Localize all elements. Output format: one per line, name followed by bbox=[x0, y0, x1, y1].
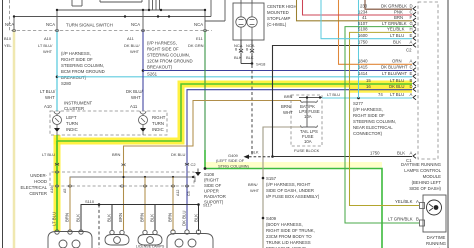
svg-text:LT GRN/BLK: LT GRN/BLK bbox=[382, 21, 407, 26]
svg-text:BLK: BLK bbox=[246, 55, 254, 60]
svg-text:STEERING COLUMN,: STEERING COLUMN, bbox=[147, 53, 190, 58]
svg-text:A: A bbox=[416, 199, 419, 204]
wire DK BLU/WHT horizontal to connector pin C bbox=[143, 70, 412, 72]
svg-text:C5: C5 bbox=[187, 191, 191, 196]
svg-text:BRN: BRN bbox=[394, 15, 403, 20]
svg-text:BLK: BLK bbox=[397, 151, 405, 156]
svg-text:(I/P HARNESS,: (I/P HARNESS, bbox=[147, 41, 177, 46]
svg-text:TURN SIGNAL SWITCH: TURN SIGNAL SWITCH bbox=[66, 23, 113, 28]
svg-text:DK BLU/WHT: DK BLU/WHT bbox=[381, 65, 408, 70]
C-HMSL ground leads BLK bbox=[239, 40, 254, 64]
svg-text:BRN: BRN bbox=[65, 213, 70, 222]
svg-text:16: 16 bbox=[366, 84, 371, 89]
svg-text:D: D bbox=[410, 84, 413, 89]
svg-text:RIGHT SIDE OF: RIGHT SIDE OF bbox=[147, 47, 179, 52]
fuse block dashed box bbox=[291, 95, 322, 153]
junction dot ground bus bbox=[271, 155, 274, 158]
svg-text:(I/P HARNESS,: (I/P HARNESS, bbox=[61, 51, 91, 56]
turn signal switch dashed box bbox=[10, 0, 213, 31]
svg-text:(I/P HARNESS,: (I/P HARNESS, bbox=[353, 107, 383, 112]
wire LT BLU 74 from fuse block to connector pin A bbox=[322, 97, 412, 99]
svg-text:5108: 5108 bbox=[358, 27, 368, 32]
svg-text:LT BLU: LT BLU bbox=[42, 152, 55, 157]
svg-text:ORN: ORN bbox=[392, 59, 402, 64]
svg-text:C2: C2 bbox=[191, 162, 197, 167]
svg-text:1234: 1234 bbox=[358, 9, 368, 14]
DRL ambient light sensor box bbox=[420, 195, 447, 232]
svg-text:YEL: YEL bbox=[4, 43, 12, 48]
splice S280 dot bbox=[56, 76, 59, 79]
svg-text:LT BLU: LT BLU bbox=[327, 92, 340, 97]
svg-text:HOOD: HOOD bbox=[34, 179, 47, 184]
splice S261 text block bbox=[147, 41, 193, 77]
svg-text:WHT: WHT bbox=[131, 95, 141, 100]
splice S280 text block bbox=[61, 51, 105, 86]
pin labels below box bbox=[50, 187, 191, 196]
fuse block internal bus bbox=[299, 98, 322, 128]
svg-text:LICENSE LAMPS: LICENSE LAMPS bbox=[136, 245, 165, 248]
pale highlight on DK GRN run bbox=[205, 162, 382, 168]
svg-text:10A: 10A bbox=[304, 114, 312, 119]
svg-text:BRN: BRN bbox=[140, 213, 145, 222]
connector chevrons C1 bbox=[413, 62, 416, 159]
svg-text:CONNECTOR): CONNECTOR) bbox=[353, 131, 383, 136]
svg-text:12CM FROM GROUND: 12CM FROM GROUND bbox=[147, 59, 193, 64]
hidden ground continuation dashed bbox=[98, 205, 100, 248]
fuse TAIL LPS 10A bbox=[301, 125, 318, 127]
svg-text:WHT: WHT bbox=[250, 188, 260, 193]
wire DK GRN/BLK 233 from top to connector bbox=[365, 0, 412, 9]
wire PNK from top to connector bbox=[303, 0, 413, 15]
wire YEL vertical bbox=[13, 31, 16, 248]
svg-text:PNK: PNK bbox=[394, 9, 403, 14]
svg-text:CENTER: CENTER bbox=[29, 191, 47, 196]
splice S261 dot bbox=[142, 69, 145, 72]
svg-text:DK GRN: DK GRN bbox=[188, 43, 204, 48]
svg-text:BRN/: BRN/ bbox=[248, 182, 258, 187]
svg-text:A10: A10 bbox=[44, 36, 52, 41]
svg-text:NCA: NCA bbox=[46, 22, 55, 27]
svg-text:TURN: TURN bbox=[152, 121, 164, 126]
wire DK BLU/WHT vertical from switch to cluster bbox=[142, 31, 144, 112]
switch pin labels NCA bbox=[5, 22, 203, 27]
C-HMSL lamp box bbox=[233, 3, 264, 40]
wire BRN rear lamp from box bbox=[172, 177, 174, 231]
svg-text:(LEFT SIDE OF: (LEFT SIDE OF bbox=[216, 158, 245, 163]
svg-text:BREAKOUT): BREAKOUT) bbox=[61, 75, 87, 80]
svg-text:TRUNK LID HARNESS: TRUNK LID HARNESS bbox=[266, 240, 311, 245]
svg-text:LEFT: LEFT bbox=[66, 115, 77, 120]
svg-text:SUPORT): SUPORT) bbox=[204, 200, 224, 205]
svg-text:LT BLU/: LT BLU/ bbox=[38, 43, 53, 48]
svg-text:CENTER HIGH: CENTER HIGH bbox=[267, 4, 297, 9]
svg-text:RIGHT SIDE OF TRUNK,: RIGHT SIDE OF TRUNK, bbox=[266, 228, 315, 233]
svg-text:BLK: BLK bbox=[150, 214, 155, 222]
svg-text:BLK: BLK bbox=[234, 55, 242, 60]
svg-text:NCA: NCA bbox=[5, 22, 14, 27]
svg-text:CLUSTER: CLUSTER bbox=[64, 106, 84, 111]
splice S277 text block bbox=[353, 101, 396, 136]
svg-text:S277: S277 bbox=[353, 101, 364, 106]
svg-text:74: 74 bbox=[378, 92, 383, 97]
junction dots inside switch bbox=[13, 9, 206, 18]
wire LT BLU vertical from top through rows to S277 bbox=[358, 0, 360, 98]
ground G409 bbox=[216, 150, 273, 169]
svg-text:1750: 1750 bbox=[370, 151, 380, 156]
svg-text:S418: S418 bbox=[256, 62, 266, 67]
svg-text:DK GRN/BLK: DK GRN/BLK bbox=[381, 4, 407, 9]
svg-text:MODULE: MODULE bbox=[423, 174, 442, 179]
svg-text:DK BLU: DK BLU bbox=[171, 152, 186, 157]
inline connector tick on DK BLU with C2 label bbox=[185, 163, 189, 166]
splice S418 bbox=[251, 62, 254, 65]
svg-text:E: E bbox=[410, 71, 413, 76]
svg-text:1600: 1600 bbox=[358, 33, 368, 38]
svg-text:DAYTIME: DAYTIME bbox=[427, 235, 446, 240]
svg-text:BLK: BLK bbox=[251, 150, 259, 155]
wire BLK from C-HMSL ground path: vertical and row to pin A bbox=[273, 46, 413, 157]
svg-text:A: A bbox=[410, 40, 413, 45]
pin B10 label and YEL wire bbox=[4, 36, 12, 48]
svg-text:F: F bbox=[410, 15, 413, 20]
svg-text:WHT: WHT bbox=[45, 95, 55, 100]
svg-text:LT GRN/BLK: LT GRN/BLK bbox=[388, 217, 413, 222]
svg-text:YEL/BLK: YEL/BLK bbox=[395, 199, 413, 204]
svg-text:BRN/: BRN/ bbox=[281, 104, 292, 109]
svg-text:233: 233 bbox=[360, 4, 368, 9]
svg-text:E11: E11 bbox=[196, 36, 204, 41]
svg-text:1840: 1840 bbox=[358, 59, 368, 64]
left turn indicator ground bbox=[54, 128, 60, 132]
svg-text:LT BLU: LT BLU bbox=[390, 33, 404, 38]
svg-text:INSTRUMENT: INSTRUMENT bbox=[64, 101, 93, 106]
pin A10 label, LT BLU/WHT bbox=[38, 36, 53, 54]
svg-text:D: D bbox=[410, 4, 413, 9]
svg-text:A: A bbox=[410, 92, 413, 97]
svg-text:B10: B10 bbox=[4, 36, 12, 41]
svg-text:WHT: WHT bbox=[283, 110, 293, 115]
hidden BLK ground run (dashed) from S418 bbox=[251, 65, 253, 157]
svg-text:FUSE BLOCK: FUSE BLOCK bbox=[294, 148, 320, 153]
C2 row labels bbox=[358, 4, 414, 53]
underhood center internal bus bbox=[70, 177, 195, 182]
wire BRN 41 from top to connector bbox=[297, 0, 413, 21]
DRL module connector dashed box bbox=[418, 2, 438, 159]
svg-text:A12: A12 bbox=[176, 190, 180, 196]
right frame border bbox=[447, 0, 449, 248]
fuse BAT/RAP LPS 10A bbox=[301, 100, 318, 102]
instrument cluster dashed box bbox=[50, 101, 167, 136]
connector chevrons C2 bbox=[413, 6, 416, 47]
DRL control module label bbox=[401, 162, 442, 191]
svg-text:BLK: BLK bbox=[76, 214, 81, 222]
splice S110 ground bus for front lamps bbox=[81, 199, 199, 231]
svg-text:1415: 1415 bbox=[358, 65, 368, 70]
svg-text:23CM FROM BODY TO: 23CM FROM BODY TO bbox=[266, 234, 312, 239]
wire BRN lamp1 from bus bbox=[69, 177, 71, 231]
svg-text:BREAKOUT): BREAKOUT) bbox=[147, 65, 173, 70]
svg-text:NCA: NCA bbox=[194, 22, 203, 27]
wire BRN/WHT from fuse down left side bbox=[263, 127, 301, 248]
pin A11 label DK BLU/WHT bbox=[124, 36, 140, 54]
sensor wire labels bbox=[388, 199, 419, 222]
svg-text:BLK: BLK bbox=[194, 214, 199, 222]
turn signal switch internal contacts bbox=[14, 0, 225, 31]
svg-text:1750: 1750 bbox=[358, 40, 368, 45]
svg-text:RIGHT SIDE OF: RIGHT SIDE OF bbox=[61, 57, 93, 62]
right turn indicator ground bbox=[140, 128, 146, 132]
svg-text:S108: S108 bbox=[204, 172, 215, 177]
svg-text:MOUNTED: MOUNTED bbox=[267, 10, 289, 15]
svg-text:C2: C2 bbox=[406, 48, 412, 53]
svg-text:RUNNING: RUNNING bbox=[426, 241, 447, 246]
svg-text:A16: A16 bbox=[50, 187, 54, 193]
svg-text:NCA: NCA bbox=[131, 22, 140, 27]
svg-text:A10: A10 bbox=[44, 104, 52, 109]
svg-text:DK BLU: DK BLU bbox=[389, 84, 405, 89]
front park/turn lamp assembly bbox=[48, 230, 92, 248]
svg-text:S261: S261 bbox=[147, 72, 158, 77]
license lamp 1 bbox=[105, 230, 129, 245]
svg-text:C: C bbox=[410, 65, 413, 70]
C-HMSL feed wires from top bbox=[240, 0, 242, 3]
svg-text:S280: S280 bbox=[61, 81, 72, 86]
svg-text:A: A bbox=[410, 59, 413, 64]
C-HMSL label bbox=[267, 4, 297, 27]
svg-text:YEL/BLK: YEL/BLK bbox=[387, 27, 405, 32]
splice S409 on BRN/WHT bbox=[262, 216, 315, 248]
svg-text:E: E bbox=[410, 33, 413, 38]
wire BRN license2 from box bbox=[144, 177, 146, 230]
svg-text:S110: S110 bbox=[85, 199, 95, 204]
wire LT GRN/BLK from connector down to DRL sensor pin B bbox=[345, 27, 419, 223]
svg-text:A5: A5 bbox=[63, 189, 67, 193]
svg-text:5107: 5107 bbox=[358, 21, 368, 26]
underhood electrical center dashed box bbox=[20, 172, 194, 196]
svg-text:S157: S157 bbox=[266, 176, 277, 181]
svg-text:STOPLAMP: STOPLAMP bbox=[267, 16, 290, 21]
C-HMSL bulb 1 bbox=[236, 3, 246, 40]
svg-text:I/P FUSE BOX ASSEMBLY): I/P FUSE BOX ASSEMBLY) bbox=[266, 194, 320, 199]
svg-text:(C-HMSL): (C-HMSL) bbox=[267, 22, 287, 27]
svg-text:LT BLU/WHT: LT BLU/WHT bbox=[382, 71, 408, 76]
svg-text:WHT: WHT bbox=[130, 49, 140, 54]
svg-text:STRG COLUMN): STRG COLUMN) bbox=[218, 164, 250, 169]
svg-text:BRN: BRN bbox=[112, 152, 121, 157]
svg-text:BLK: BLK bbox=[107, 214, 112, 222]
splice S277 dot bbox=[357, 97, 360, 100]
svg-text:SIDE OF DASH): SIDE OF DASH) bbox=[409, 186, 441, 191]
wire LT BLU 1600 from top corner to connector bbox=[321, 0, 412, 39]
svg-text:BRN: BRN bbox=[118, 213, 123, 222]
right turn indicator bulb bbox=[139, 111, 148, 128]
svg-text:15: 15 bbox=[366, 78, 371, 83]
connector ticks on turn signal switch bottom edge bbox=[12, 29, 207, 31]
wire DK BLU from connector D down to rear lamp bbox=[187, 90, 412, 230]
svg-text:UNDER-: UNDER- bbox=[30, 173, 47, 178]
svg-text:DAYTIME RUNNING: DAYTIME RUNNING bbox=[401, 162, 442, 167]
sensor caption bbox=[422, 235, 450, 248]
wire YEL/BLK from connector down to DRL sensor pin A bbox=[350, 32, 420, 205]
svg-text:B: B bbox=[410, 78, 413, 83]
wire DK GRN highlighted lower run bbox=[205, 150, 382, 248]
svg-text:STEERING COLUMN,: STEERING COLUMN, bbox=[353, 119, 396, 124]
rotated wire color labels bbox=[52, 210, 199, 226]
svg-text:BCM FROM GROUND: BCM FROM GROUND bbox=[61, 69, 105, 74]
svg-text:A11: A11 bbox=[127, 36, 135, 41]
svg-text:RIGHT: RIGHT bbox=[152, 115, 166, 120]
svg-text:(BEHIND LEFT: (BEHIND LEFT bbox=[412, 180, 442, 185]
svg-text:DK BLU: DK BLU bbox=[182, 210, 187, 226]
svg-text:ELECTRICAL: ELECTRICAL bbox=[20, 185, 47, 190]
C-HMSL bulb 2 bbox=[247, 3, 257, 40]
highlighted LT BLU wire from cluster: down, right, up and across to connector bbox=[57, 84, 412, 141]
wire BRN from fuse block to left, down bbox=[124, 101, 302, 231]
svg-text:(BODY HARNESS,: (BODY HARNESS, bbox=[266, 222, 303, 227]
inline connector tick on LT BLU bbox=[55, 163, 59, 166]
svg-text:UPPER: UPPER bbox=[204, 189, 219, 194]
wire LT BLU/WHT horizontal to connector pin E bbox=[57, 76, 412, 78]
svg-text:41: 41 bbox=[362, 15, 367, 20]
connector ticks on underhood center box edges bbox=[55, 171, 189, 187]
highlight yellow band on LT BLU traced circuit bbox=[57, 84, 412, 231]
license lamp 2 bbox=[138, 230, 162, 245]
cluster labels above bbox=[40, 89, 144, 109]
svg-text:S409: S409 bbox=[266, 216, 277, 221]
wire LT BLU/WHT vertical from switch to cluster bbox=[56, 31, 58, 112]
svg-text:BLK: BLK bbox=[393, 40, 401, 45]
splice S117 dot bbox=[197, 203, 200, 206]
svg-text:RIGHT SIDE OF: RIGHT SIDE OF bbox=[353, 113, 385, 118]
svg-text:LAMPS CONTROL: LAMPS CONTROL bbox=[404, 168, 441, 173]
svg-text:WHT: WHT bbox=[43, 49, 53, 54]
svg-text:H: H bbox=[410, 27, 413, 32]
splice S108 flag and text bbox=[195, 167, 226, 204]
svg-text:(RIGHT: (RIGHT bbox=[204, 178, 219, 183]
svg-text:A: A bbox=[410, 151, 413, 156]
svg-text:NEAR ELECTRICAL: NEAR ELECTRICAL bbox=[353, 125, 393, 130]
left turn indicator bulb bbox=[53, 111, 62, 128]
svg-text:(I/P HARNESS, RIGHT: (I/P HARNESS, RIGHT bbox=[266, 182, 311, 187]
svg-text:BRN: BRN bbox=[168, 213, 173, 222]
svg-text:LT BLU/: LT BLU/ bbox=[40, 89, 56, 94]
svg-text:LT BLU: LT BLU bbox=[52, 212, 57, 226]
wire DK GRN vertical from switch bbox=[204, 31, 206, 151]
svg-text:RADIATOR: RADIATOR bbox=[204, 194, 226, 199]
svg-text:TURN: TURN bbox=[66, 121, 78, 126]
svg-text:C: C bbox=[410, 9, 413, 14]
svg-text:A11: A11 bbox=[130, 104, 138, 109]
C1 row labels bbox=[358, 59, 413, 164]
svg-text:STEERING COLUMN,: STEERING COLUMN, bbox=[61, 63, 104, 68]
svg-text:B: B bbox=[416, 217, 419, 222]
svg-text:DK BLU/: DK BLU/ bbox=[126, 89, 144, 94]
wire BLK 1750 to connector pin A (C1) bbox=[273, 156, 413, 158]
svg-text:1414: 1414 bbox=[358, 71, 368, 76]
svg-text:INDIC: INDIC bbox=[66, 127, 78, 132]
splice S157 on BRN/WHT bbox=[248, 176, 320, 199]
pin E11 label DK GRN bbox=[188, 36, 204, 48]
svg-text:SIDE OF DASH, UNDER: SIDE OF DASH, UNDER bbox=[266, 188, 314, 193]
svg-text:LT BLU: LT BLU bbox=[390, 92, 404, 97]
highlighted LT BLU wire down to underhood electrical center bbox=[56, 141, 58, 231]
svg-text:INDIC: INDIC bbox=[152, 127, 164, 132]
svg-text:SIDE OF: SIDE OF bbox=[204, 183, 222, 188]
rear lamp assembly bbox=[167, 230, 213, 248]
wire ORN from top to connector bbox=[339, 0, 413, 64]
svg-text:DK BLU/: DK BLU/ bbox=[124, 43, 140, 48]
svg-text:LT BLU: LT BLU bbox=[390, 78, 404, 83]
left frame border bbox=[2, 0, 4, 248]
svg-text:10A: 10A bbox=[304, 139, 312, 144]
